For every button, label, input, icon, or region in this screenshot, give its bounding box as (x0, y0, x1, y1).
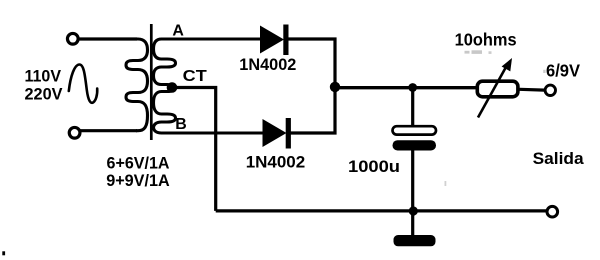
svg-text:B: B (175, 116, 187, 133)
wire CT to bottom rail (172, 88, 216, 211)
transformer T1 secondary winding (154, 39, 264, 133)
wire capacitor bottom lead to ground bar (411, 150, 414, 236)
svg-text:1N4002: 1N4002 (239, 55, 296, 74)
svg-text:9+9V/1A: 9+9V/1A (106, 171, 170, 190)
capacitor C1 positive plate (393, 126, 437, 134)
wire rectifier output to resistor (335, 86, 476, 89)
svg-text:1N4002: 1N4002 (246, 152, 306, 171)
wire J1 to primary (78, 37, 137, 40)
svg-text:Salida: Salida (533, 149, 585, 168)
svg-text:110V: 110V (25, 66, 62, 85)
wire capacitor top lead (411, 88, 414, 127)
svg-text:10ohms: 10ohms (455, 30, 517, 50)
terminal J2 AC input bottom (69, 127, 80, 138)
terminal J1 AC input top (67, 33, 78, 44)
capacitor C1 negative plate (393, 140, 437, 150)
svg-text:6/9V: 6/9V (546, 60, 580, 80)
node bottom rail capacitor junction dot (409, 206, 418, 215)
wire bottom rail (216, 209, 547, 212)
diode D2 (263, 118, 291, 149)
transformer T1 primary winding (126, 39, 148, 131)
AC source sine symbol (69, 65, 97, 103)
svg-text:220V: 220V (25, 85, 64, 104)
ground bar (394, 235, 436, 246)
wire resistor to output terminal (520, 88, 545, 92)
wire rectifier output link (287, 39, 335, 133)
terminal J3 output positive (545, 85, 555, 95)
svg-text:CT: CT (183, 68, 207, 85)
transformer T1 core (150, 24, 153, 140)
node rectifier output junction dot (330, 82, 340, 92)
resistor R1 rheostat arrow (478, 58, 512, 118)
node capacitor top junction dot (408, 83, 417, 92)
node CT junction dot (167, 82, 178, 93)
wire primary bottom to J2 (80, 129, 137, 132)
resistor R1 rheostat body (477, 81, 518, 97)
diode D1 (260, 25, 289, 56)
svg-text:1000u: 1000u (348, 157, 400, 176)
svg-text:A: A (172, 23, 184, 40)
svg-text:6+6V/1A: 6+6V/1A (107, 154, 170, 173)
terminal J4 output return (547, 206, 558, 217)
